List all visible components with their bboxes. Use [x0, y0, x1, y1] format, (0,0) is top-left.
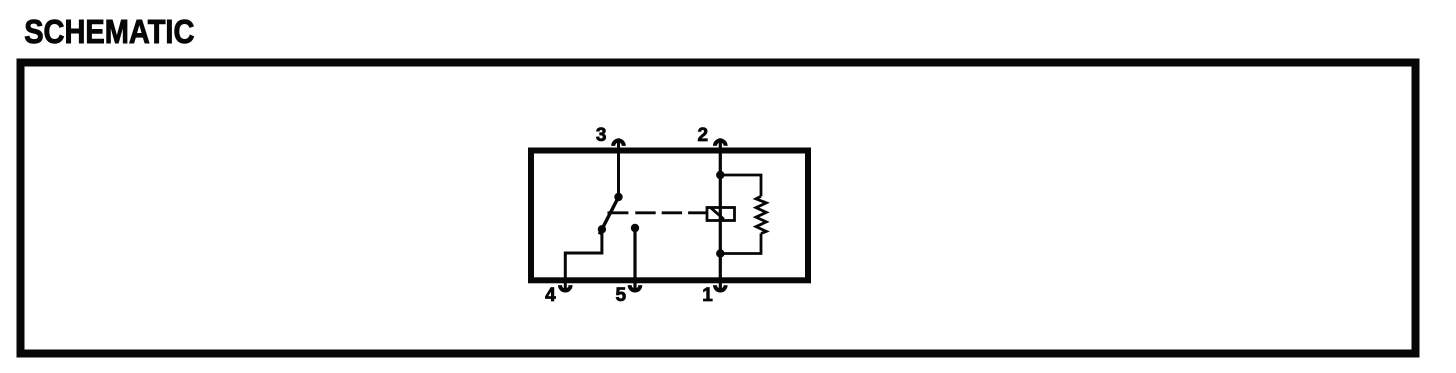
junction node lower — [716, 249, 724, 257]
outer border frame — [21, 63, 1416, 354]
junction node upper — [716, 171, 724, 179]
wire pin 5 stub — [633, 228, 636, 292]
switch contact junction — [598, 225, 606, 233]
pin 3 stub — [617, 138, 620, 152]
resistor zigzag — [756, 196, 766, 233]
linkage solid segment — [608, 211, 629, 214]
relay coil box — [707, 208, 735, 221]
wire pin2 to pin1 vertical — [719, 138, 722, 291]
pin 2 connector arc — [715, 140, 726, 145]
wire resistor branch top — [720, 175, 761, 196]
pin 5 contact dot — [631, 224, 639, 232]
pin 1 connector arc — [715, 285, 726, 290]
svg-text:SCHEMATIC: SCHEMATIC — [24, 12, 194, 51]
svg-text:5: 5 — [616, 285, 627, 306]
wire switch to pin 4 step — [565, 229, 602, 291]
linkage dashed line — [635, 211, 707, 214]
svg-text:2: 2 — [698, 125, 709, 146]
svg-text:1: 1 — [702, 285, 713, 306]
switch arm — [599, 197, 618, 234]
wire resistor branch bottom — [720, 234, 761, 254]
pin 4 connector arc — [560, 285, 571, 290]
relay box — [531, 151, 808, 281]
pin 5 connector arc — [630, 285, 641, 290]
pin 3 connector arc — [613, 141, 624, 146]
svg-text:3: 3 — [596, 125, 607, 146]
wire pin 3 to switch pivot — [617, 152, 620, 197]
coil diagonal — [711, 208, 724, 219]
switch pivot junction — [614, 193, 622, 201]
svg-text:4: 4 — [545, 285, 556, 306]
